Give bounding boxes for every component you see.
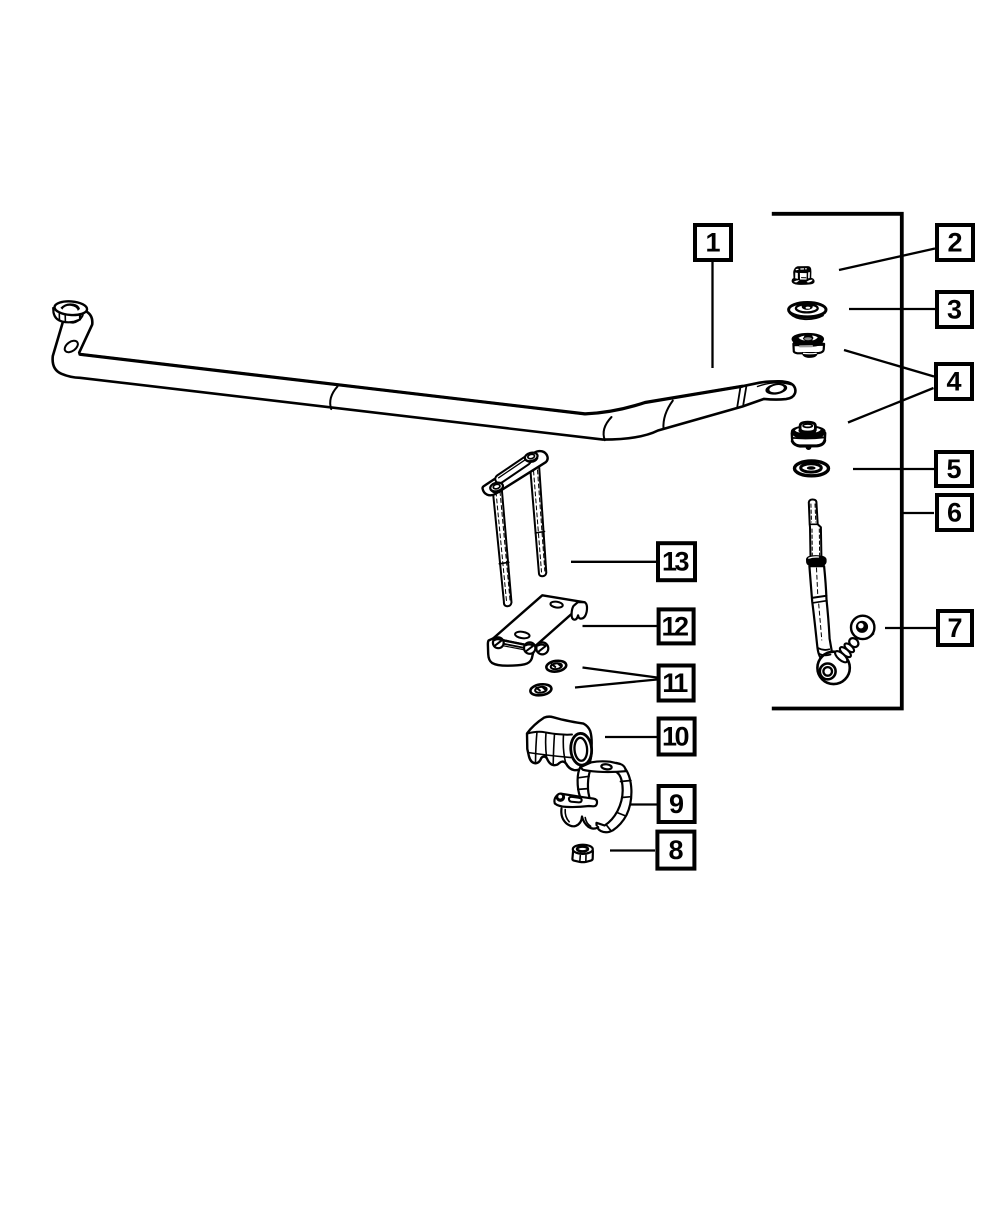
svg-text:10: 10 (662, 722, 689, 752)
svg-text:12: 12 (661, 611, 688, 641)
svg-text:9: 9 (669, 789, 684, 819)
svg-text:11: 11 (662, 668, 688, 698)
svg-text:13: 13 (662, 547, 690, 577)
svg-text:3: 3 (947, 295, 962, 325)
svg-text:2: 2 (947, 228, 962, 258)
svg-text:7: 7 (947, 613, 962, 643)
svg-text:6: 6 (947, 498, 962, 528)
svg-text:8: 8 (668, 835, 683, 865)
svg-text:1: 1 (705, 228, 720, 258)
svg-text:4: 4 (946, 367, 961, 397)
svg-text:5: 5 (946, 454, 961, 484)
